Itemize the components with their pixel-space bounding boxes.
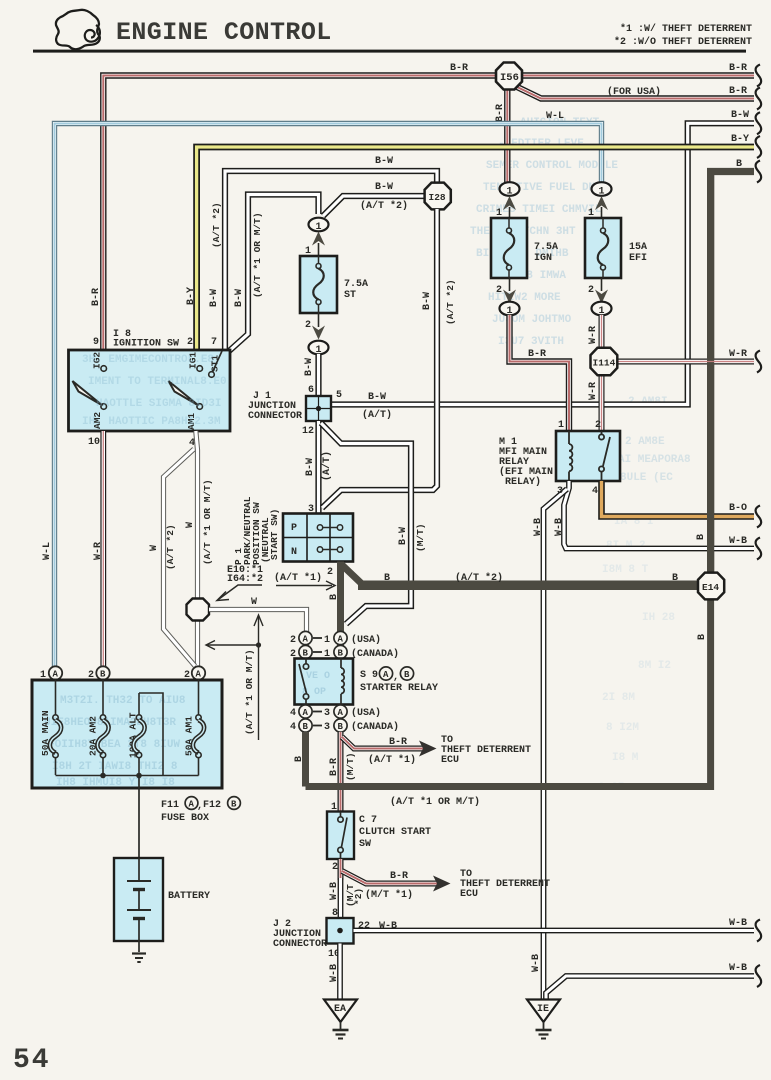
- wire W from I8 pin 4 straight to splice octagon and fuse 2A: [196, 431, 198, 666]
- svg-text:B-W: B-W: [234, 289, 245, 307]
- svg-text:B: B: [329, 594, 340, 600]
- svg-text:A: A: [53, 670, 59, 680]
- stem: [318, 313, 320, 327]
- wire B thick funnel branch to the right: [341, 564, 711, 587]
- svg-text:I114: I114: [593, 358, 616, 369]
- svg-text:1: 1: [507, 187, 513, 198]
- EA ground stem and symbol: [333, 1022, 349, 1039]
- svg-text:B-W: B-W: [304, 358, 315, 376]
- curly end B-R top: [756, 65, 762, 87]
- svg-text:VE O: VE O: [306, 671, 330, 682]
- svg-text:5: 5: [336, 390, 342, 401]
- svg-text:7: 7: [211, 337, 217, 348]
- fuse 50A MAIN element: [50, 680, 61, 776]
- svg-text:(A/T *2): (A/T *2): [360, 200, 408, 212]
- svg-text:EA: EA: [334, 1004, 346, 1015]
- svg-text:CONNECTOR: CONNECTOR: [248, 411, 302, 422]
- wire B-R from IGN fuse to M1 pin 1: [510, 315, 570, 431]
- svg-text:A: A: [303, 708, 309, 718]
- svg-text:IGN: IGN: [534, 253, 552, 264]
- svg-text:W-B: W-B: [729, 536, 747, 547]
- svg-text:I64:*2: I64:*2: [227, 573, 263, 585]
- svg-text:2: 2: [332, 862, 338, 873]
- svg-text:2 AM8E: 2 AM8E: [625, 436, 665, 448]
- wire B-R (FOR USA): [513, 85, 754, 99]
- wire W-B from M1 pin 3 down to IE ground: [544, 489, 568, 1000]
- svg-text:IMENT TO TERMINAL8.E0: IMENT TO TERMINAL8.E0: [88, 376, 227, 388]
- battery symbol: [127, 858, 151, 941]
- ST1 internal lead: [213, 351, 223, 372]
- wire B-W branch from J1 pin12 right and down (M/T): [321, 423, 411, 624]
- park/neutral position switch P1 box: [283, 514, 353, 562]
- S9 coil: [341, 659, 344, 705]
- wire W-R from EFI fuse to I114: [599, 315, 605, 349]
- wire B thick right vertical overpass: [707, 168, 714, 574]
- fuse 20A AM2 element: [97, 680, 108, 776]
- wire B thick from P1 pin 2 down to starter relay pin 1: [337, 562, 344, 657]
- svg-text:(A/T *2): (A/T *2): [211, 202, 222, 248]
- svg-text:B-O: B-O: [729, 503, 747, 514]
- svg-text:C 7: C 7: [359, 815, 377, 826]
- svg-text:W-L: W-L: [546, 111, 564, 122]
- svg-text:(A/T *2): (A/T *2): [165, 524, 176, 570]
- bleed-through text in fuse box: [44, 695, 186, 789]
- svg-text:4: 4: [290, 708, 296, 719]
- S9 switch: [299, 659, 309, 705]
- svg-text:F11: F11: [161, 800, 179, 811]
- C7 switch: [338, 812, 347, 860]
- svg-text:M3T2I. TH32 TO AIU8: M3T2I. TH32 TO AIU8: [60, 695, 186, 707]
- svg-text:B: B: [736, 159, 742, 170]
- fuse 50A AM1 element: [193, 680, 204, 758]
- curly end W-R: [756, 351, 762, 373]
- svg-text:2: 2: [290, 635, 296, 646]
- ignition switch I8 box: [69, 350, 231, 431]
- wire B thick top right down to E14: [711, 172, 754, 575]
- svg-text:W: W: [149, 545, 160, 551]
- svg-text:B-R: B-R: [729, 86, 747, 97]
- svg-text:P: P: [291, 523, 297, 534]
- svg-text:B-W: B-W: [368, 392, 386, 403]
- svg-text:E14: E14: [702, 582, 719, 593]
- engine icon swirl: [85, 25, 100, 42]
- svg-text:3: 3: [324, 722, 330, 733]
- svg-text:W-R: W-R: [729, 349, 747, 360]
- svg-text:(A/T *1): (A/T *1): [274, 572, 322, 584]
- svg-text:1: 1: [316, 222, 322, 233]
- svg-text:B-R: B-R: [389, 737, 407, 748]
- wire B-W from I28 left to ST oval diagonal: [323, 196, 426, 216]
- svg-text:F12: F12: [203, 800, 221, 811]
- svg-text:W: W: [185, 522, 196, 528]
- svg-text:2: 2: [588, 285, 594, 296]
- wire B-R branch to theft deterrent ECU (A/T): [342, 737, 424, 749]
- fuse 100A ALT element: [133, 693, 144, 775]
- junction connector J1 box: [306, 396, 331, 421]
- svg-text:B: B: [294, 756, 305, 762]
- svg-text:B-W: B-W: [375, 156, 393, 167]
- bleed-through text right of M1: [618, 396, 691, 484]
- bleed-through text lower right: [598, 516, 675, 794]
- bleed-through text overlay S9 box: [302, 671, 330, 698]
- svg-text:I28: I28: [429, 192, 446, 203]
- fuse box F11/F12 outline: [32, 680, 222, 788]
- switch wedge AM1: [169, 381, 199, 406]
- svg-text:W: W: [251, 597, 257, 608]
- svg-text:B: B: [303, 722, 309, 732]
- svg-text:7.5A: 7.5A: [534, 242, 558, 253]
- svg-text:A: A: [303, 635, 309, 645]
- svg-text:B-W: B-W: [398, 527, 409, 545]
- svg-text:6: 6: [308, 385, 314, 396]
- svg-text:B: B: [100, 670, 106, 680]
- svg-text:W-R: W-R: [588, 382, 599, 400]
- stem: [509, 207, 511, 219]
- svg-text:B: B: [303, 649, 309, 659]
- wire W from splice right to starter relay: [209, 610, 307, 659]
- svg-text:(CANADA): (CANADA): [351, 648, 399, 660]
- svg-text:*1 :W/ THEFT DETERRENT: *1 :W/ THEFT DETERRENT: [620, 23, 752, 35]
- svg-text:8 I2M: 8 I2M: [606, 722, 639, 734]
- curly end W-B: [756, 538, 762, 560]
- svg-text:4: 4: [290, 722, 296, 733]
- svg-text:(A/T *1 OR M/T): (A/T *1 OR M/T): [202, 479, 213, 565]
- wire B-W outer (A/T #2) from I28 top to I8 pin 7: [225, 171, 437, 351]
- svg-text:IH. HAOTTIC PA8HI2.3M: IH. HAOTTIC PA8HI2.3M: [82, 416, 221, 428]
- svg-text:W-B: W-B: [329, 964, 340, 982]
- wire B-R top horizontal and left vertical to I8 pin 9: [103, 76, 754, 351]
- fuse 7.5A IGN box: [491, 218, 527, 278]
- curly end W-B J2: [756, 920, 762, 942]
- relay M1 box: [556, 431, 620, 481]
- wire B thick bottom bus overpass: [306, 783, 711, 790]
- svg-text:(USA): (USA): [351, 707, 381, 719]
- ground IE triangle: [527, 1000, 560, 1023]
- wire B thick below E14 down and left along bottom bus: [306, 599, 711, 787]
- junction connector J2 box: [327, 918, 354, 944]
- fuse 15A EFI element: [598, 218, 609, 278]
- dark arrow into ST oval: [312, 232, 325, 246]
- curly end B-Y: [756, 136, 762, 158]
- wire W-R from I114 right to edge: [617, 359, 754, 365]
- switch wedge AM2: [73, 381, 103, 406]
- svg-text:IH8 IHMUI8 YTI8 I8: IH8 IHMUI8 YTI8 I8: [56, 777, 175, 789]
- bleed-through text overlay fuse box: [44, 695, 186, 789]
- connector oval 1 below IGN fuse: [500, 302, 520, 316]
- wire B-W inner (A/T #1 OR M/T) from left corner to ST oval: [228, 195, 319, 353]
- wire B-Y from I8 pin 2 to right edge: [197, 147, 754, 350]
- curly end B-W: [756, 112, 762, 134]
- svg-text:(CANADA): (CANADA): [351, 721, 399, 733]
- contact AM2 circle: [101, 404, 107, 410]
- IE ground stem and symbol: [536, 1022, 552, 1039]
- svg-text:B-R: B-R: [91, 288, 102, 306]
- wire W-B lower right to IE: [546, 976, 754, 999]
- svg-text:2: 2: [595, 420, 601, 431]
- svg-text:B-W: B-W: [209, 289, 220, 307]
- bleed-through text overlay I8 box: [82, 354, 227, 428]
- dark arrow into EFI oval: [595, 196, 608, 210]
- svg-text:(A/T): (A/T): [362, 409, 392, 421]
- svg-text:B-R: B-R: [390, 871, 408, 882]
- starter relay S9 box: [295, 659, 354, 705]
- fuse 7.5A IGN element: [504, 218, 515, 278]
- svg-text:HAOTTLE SIGMA 8ID3I: HAOTTLE SIGMA 8ID3I: [96, 398, 221, 410]
- svg-text:BATTERY: BATTERY: [168, 891, 210, 902]
- wire B-R branch to theft deterrent ECU (M/T): [342, 871, 438, 884]
- svg-text:W-B: W-B: [729, 963, 747, 974]
- svg-text:B: B: [404, 670, 410, 680]
- svg-text:S 9: S 9: [360, 670, 378, 681]
- arrow from E10 label to splice: [217, 585, 262, 601]
- svg-text:(A/T *2): (A/T *2): [455, 572, 503, 584]
- thick B horizontal reinforcing into E14: [358, 583, 700, 590]
- contact AM1 circle: [197, 404, 203, 410]
- svg-text:1: 1: [599, 187, 605, 198]
- connector I114 octagon: [591, 348, 618, 375]
- svg-text:I56: I56: [500, 72, 519, 84]
- svg-text:W-B: W-B: [329, 882, 340, 900]
- red stripe continuation of W-R across B: [700, 361, 754, 363]
- connector oval 1 above EFI fuse: [592, 182, 612, 196]
- svg-text:3H. EMGIMECONTROL.E8: 3H. EMGIMECONTROL.E8: [82, 354, 214, 366]
- svg-text:I8H 2T IAWI8 THI2 8: I8H 2T IAWI8 THI2 8: [52, 761, 178, 773]
- wire B-R from S9 pin 3 down to clutch start switch C7: [338, 732, 344, 812]
- svg-text:IE: IE: [537, 1004, 549, 1015]
- wire W branch (A/T #2) diagonal loop: [164, 449, 196, 666]
- svg-text:W-R: W-R: [93, 542, 104, 560]
- connector I56 octagon: [496, 63, 522, 90]
- connector oval 1 above ST fuse: [309, 218, 329, 232]
- svg-text:8ULE (EC: 8ULE (EC: [620, 472, 673, 484]
- wire B-W from ST oval down to J1 pin 6: [315, 354, 321, 397]
- svg-text:A: A: [338, 708, 344, 718]
- dark arrow below EFI fuse: [595, 290, 608, 304]
- svg-text:B-R: B-R: [495, 104, 506, 122]
- svg-text:,: ,: [393, 672, 399, 683]
- svg-text:ST: ST: [344, 290, 356, 301]
- svg-text:2: 2: [187, 337, 193, 348]
- svg-text:B-W: B-W: [305, 458, 316, 476]
- indicator arrow left into W wire: [206, 641, 259, 650]
- arrow (A/T #1) pointing right: [276, 581, 335, 590]
- splice octagon on W wire: [187, 599, 210, 621]
- svg-text:B: B: [697, 634, 708, 640]
- svg-text:B-W: B-W: [731, 110, 749, 121]
- svg-text:RELAY): RELAY): [505, 476, 541, 488]
- wire B-W from I28 down, jog left into P1 pin 3: [322, 209, 437, 508]
- svg-text:I8M 8 T: I8M 8 T: [602, 564, 649, 576]
- arrowhead theft M/T: [433, 876, 451, 892]
- svg-text:CONNECTOR: CONNECTOR: [273, 939, 327, 950]
- svg-text:B: B: [672, 573, 678, 584]
- svg-text:SW: SW: [359, 839, 371, 850]
- junction dot ALT on bus: [136, 773, 142, 779]
- svg-text:B-Y: B-Y: [186, 287, 197, 305]
- wire W-B from J2 pin 10 down to EA ground: [337, 944, 343, 1001]
- dark arrow below ST fuse: [312, 326, 325, 340]
- terminal ST1 circle: [209, 372, 215, 378]
- clutch start switch C7 box: [327, 812, 354, 860]
- svg-text:*2): *2): [353, 888, 364, 905]
- svg-text:*2 :W/O THEFT DETERRENT: *2 :W/O THEFT DETERRENT: [614, 36, 752, 48]
- svg-text:3: 3: [557, 486, 563, 497]
- dark arrow below IGN fuse: [503, 290, 516, 304]
- svg-text:(A/T *2): (A/T *2): [445, 279, 456, 325]
- P1 contacts row N: [317, 547, 342, 552]
- wire B-W (A/T) from J1 pin 12 down to P1 pin 3: [315, 421, 321, 514]
- wire W-B from M1 pin 3 branch to right edge: [564, 481, 754, 549]
- curly end B-R 2: [756, 88, 762, 110]
- svg-text:(A/T *1 OR M/T): (A/T *1 OR M/T): [390, 796, 480, 808]
- terminal IG1 circle: [197, 366, 203, 372]
- svg-text:W-B: W-B: [533, 518, 544, 536]
- svg-text:B-W: B-W: [375, 182, 393, 193]
- svg-text:N: N: [291, 547, 297, 558]
- relay M1 switch: [599, 431, 610, 481]
- svg-text:4: 4: [592, 486, 598, 497]
- fuse 7.5A ST box: [300, 256, 337, 313]
- wire B-O from M1 pin 4 to right edge: [602, 481, 755, 517]
- terminal IG2 circle: [101, 366, 107, 372]
- svg-text:A: A: [189, 800, 195, 810]
- wire W-B from J2 pin 22 to right edge: [354, 928, 755, 934]
- junction dot AM2 on bus: [100, 773, 106, 779]
- svg-text:10: 10: [88, 437, 100, 448]
- P1 contacts row P: [317, 525, 342, 530]
- battery feed line from bus: [138, 776, 140, 859]
- curly end B: [756, 161, 762, 183]
- connector E14 octagon: [698, 573, 724, 600]
- svg-text:CLUTCH START: CLUTCH START: [359, 827, 431, 838]
- svg-text:1: 1: [558, 420, 564, 431]
- svg-text:8M I2: 8M I2: [638, 660, 671, 672]
- dark arrow into IGN fuse oval: [503, 196, 516, 210]
- svg-text:(A/T): (A/T): [321, 451, 333, 481]
- svg-text:W-B: W-B: [729, 918, 747, 929]
- bleed-through text in I8 box: [82, 354, 227, 428]
- svg-text:W-B: W-B: [554, 518, 565, 536]
- fuse 7.5A ST element: [313, 256, 324, 313]
- fuse 15A EFI box: [585, 218, 621, 278]
- bleed-through text S9 box: [300, 668, 333, 696]
- svg-text:B-R: B-R: [729, 63, 747, 74]
- svg-text:(M/T *1): (M/T *1): [365, 889, 413, 901]
- junction dot on indicator: [256, 642, 261, 647]
- svg-text:B: B: [338, 722, 344, 732]
- svg-text:B: B: [231, 800, 237, 810]
- P1 internal dividers: [283, 514, 353, 562]
- svg-text:IGNITION SW: IGNITION SW: [113, 339, 179, 350]
- wire B-R short below C7: [338, 859, 344, 880]
- svg-text:(A/T *1 OR M/T): (A/T *1 OR M/T): [244, 649, 255, 735]
- arrowhead theft A/T: [419, 741, 437, 757]
- svg-text:B-R: B-R: [528, 349, 546, 360]
- bleed-through text cluster upper right: [470, 117, 618, 348]
- svg-text:B-R: B-R: [450, 63, 468, 74]
- svg-text:2: 2: [305, 320, 311, 331]
- connector I28 octagon: [425, 183, 451, 210]
- svg-text:(A/T *1 OR M/T): (A/T *1 OR M/T): [252, 212, 263, 298]
- svg-text:AI MEAPORA8: AI MEAPORA8: [618, 454, 691, 466]
- svg-text:A: A: [383, 670, 389, 680]
- engine icon: [56, 10, 100, 49]
- svg-text:I8 M: I8 M: [612, 752, 639, 764]
- svg-text:CRIMES TIMEI CHMVIL: CRIMES TIMEI CHMVIL: [476, 204, 602, 216]
- wire B-R vertical below I56 to fuse IGN: [504, 80, 510, 183]
- wire W-R from I8 pin 10 to fuse box 2B: [100, 431, 106, 667]
- svg-text:ECU: ECU: [460, 889, 478, 900]
- ground EA triangle: [324, 1000, 357, 1023]
- curly end B-O: [756, 506, 762, 528]
- svg-text:B-R: B-R: [329, 758, 340, 776]
- svg-text:2: 2: [496, 285, 502, 296]
- wire B-W top right via right side down to J1 pin 5: [331, 123, 754, 404]
- svg-text:(FOR USA): (FOR USA): [607, 86, 661, 98]
- svg-text:7.5A: 7.5A: [344, 279, 368, 290]
- svg-text:STARTER RELAY: STARTER RELAY: [360, 683, 438, 694]
- battery box: [114, 858, 163, 941]
- svg-text:(M/T): (M/T): [415, 523, 426, 552]
- svg-text:A: A: [196, 670, 202, 680]
- svg-text:2I 8M: 2I 8M: [602, 692, 635, 704]
- svg-text:FUSE BOX: FUSE BOX: [161, 813, 209, 824]
- svg-text:B: B: [338, 649, 344, 659]
- svg-text:9: 9: [93, 337, 99, 348]
- wire W-L horizontal, left vertical to fuse 1A, right vertical to EFI fuse: [55, 124, 602, 668]
- svg-text:A: A: [338, 635, 344, 645]
- relay M1 coil: [569, 431, 572, 481]
- wire B thick from S9 pin 4 down to bottom bus: [302, 732, 309, 787]
- ALT top rail to AM1 bottom: [56, 693, 199, 776]
- svg-text:3: 3: [324, 708, 330, 719]
- svg-text:B: B: [696, 534, 707, 540]
- svg-text:15A: 15A: [629, 242, 647, 253]
- svg-text:(A/T *1): (A/T *1): [368, 754, 416, 766]
- svg-text:START SW): START SW): [269, 509, 280, 560]
- svg-text:(M/T): (M/T): [345, 752, 356, 781]
- connector oval 1 above IGN fuse: [500, 182, 520, 196]
- svg-text:ECU: ECU: [441, 755, 459, 766]
- svg-text:(USA): (USA): [351, 634, 381, 646]
- svg-text:JU8OM JOHTMO: JU8OM JOHTMO: [492, 314, 572, 326]
- svg-text:12: 12: [302, 426, 314, 437]
- svg-text:B: B: [384, 573, 390, 584]
- svg-text:FOIIH8T BEA 2T8 8IUW: FOIIH8T BEA 2T8 8IUW: [48, 739, 180, 751]
- svg-text:54: 54: [13, 1045, 51, 1076]
- curly end W-B lower: [756, 965, 762, 987]
- svg-text:B-Y: B-Y: [731, 134, 749, 145]
- connector oval 1 below ST fuse: [309, 341, 329, 355]
- svg-text:IH 28: IH 28: [642, 612, 675, 624]
- svg-text:B-W: B-W: [422, 292, 433, 310]
- svg-text:2: 2: [327, 567, 333, 578]
- title rule: [33, 50, 746, 53]
- svg-text:W-L: W-L: [42, 542, 53, 560]
- wire W-B from C7 down to J2 pin 8: [338, 878, 344, 918]
- svg-text:1: 1: [324, 635, 330, 646]
- svg-text:W-R: W-R: [588, 326, 599, 344]
- stem ST arrow: [318, 243, 320, 256]
- svg-text:EFI: EFI: [629, 253, 647, 264]
- wire W-R from I114 down to M1 pin 2: [599, 374, 605, 431]
- svg-text:ENGINE CONTROL: ENGINE CONTROL: [116, 18, 332, 47]
- connector oval 1 below EFI fuse: [592, 302, 612, 316]
- svg-text:W-B: W-B: [531, 954, 542, 972]
- indicator vertical line with up arrow: [254, 615, 263, 740]
- battery ground lead: [138, 941, 140, 952]
- battery ground symbol: [132, 954, 146, 963]
